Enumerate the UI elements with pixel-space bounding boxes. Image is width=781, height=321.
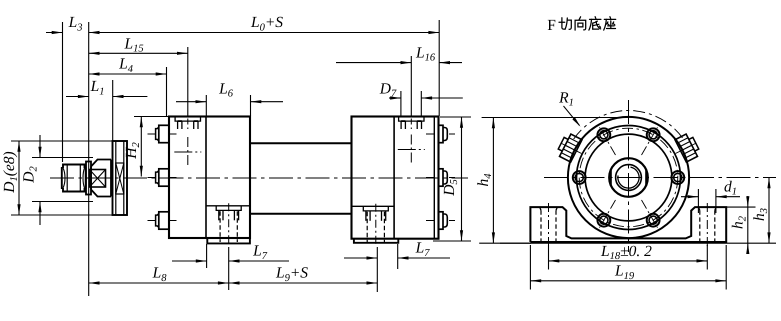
wire key radial line upper-left	[562, 144, 582, 154]
node thread box X1	[90, 170, 106, 188]
node base left foot hole	[540, 203, 558, 249]
wire extension line L6 left	[205, 95, 207, 116]
dimension D2	[21, 135, 94, 225]
node base right foot hole	[699, 203, 717, 249]
node boss wrench flat left	[609, 168, 612, 187]
node tie-rod nut front top	[148, 125, 177, 142]
wire extension line L7L left down	[206, 244, 208, 268]
dimension R1 leader	[558, 89, 580, 126]
dimension L19	[530, 263, 726, 283]
dimension L1	[66, 78, 147, 98]
node bolt pitch circle	[579, 128, 678, 227]
wire rear cover line	[433, 117, 435, 239]
node cylinder tube	[250, 143, 352, 214]
node flange outer circle	[568, 117, 689, 238]
wire horizontal centerline (end view)	[544, 177, 776, 179]
dimension D5	[433, 117, 471, 241]
node flange bolt upper-right	[642, 127, 660, 155]
node flange bolt lower-left	[597, 200, 615, 228]
dimension L4	[89, 56, 167, 76]
dimension L8	[89, 265, 229, 285]
wire extension L19 right	[725, 245, 727, 290]
dimension L7 rear	[344, 240, 450, 260]
node rear head bottom boss	[354, 239, 398, 243]
node spigot circle	[577, 126, 681, 230]
dimension L16	[336, 44, 462, 64]
node cushion screw rear middle	[426, 169, 455, 186]
node rear head port crosshair	[398, 135, 425, 165]
dimension L15	[89, 36, 188, 55]
wire extension line port2 CL down	[376, 247, 378, 292]
svg-text:L0+S: L0+S	[250, 14, 283, 33]
node flange bolt left	[573, 171, 586, 184]
wire front head inner line	[205, 117, 207, 239]
node flange bolt lower-right	[642, 200, 660, 228]
dimension L9+S	[229, 265, 378, 285]
node flange bolt right	[671, 171, 684, 184]
node front head bottom port	[206, 203, 250, 246]
node rear head block	[352, 117, 439, 239]
node tangential base outline	[530, 207, 726, 242]
node tapered collar	[91, 160, 111, 197]
wire rear head inner line	[393, 117, 395, 239]
wire extension line D7 right	[420, 91, 422, 116]
wire extension L18 right	[706, 245, 708, 270]
wire vertical centerline (end view)	[628, 100, 630, 252]
dimension L7 front	[172, 243, 289, 263]
svg-text:D1(e8): D1(e8)	[1, 151, 20, 193]
node piston rod circle	[618, 167, 639, 188]
wire extension line x166.5	[166, 67, 168, 116]
node rear head bottom port	[353, 204, 395, 247]
node thread box X2	[116, 163, 124, 194]
node gland flange plate	[113, 141, 128, 215]
node hex nut on piston rod	[62, 165, 86, 192]
dimension d1	[681, 178, 740, 213]
wire extension L18 left	[548, 245, 550, 270]
node key pitch arc (dash-dot)	[574, 111, 684, 140]
dimension h3	[751, 178, 771, 244]
wire H2 top extension line	[134, 116, 169, 118]
wire rod centerline (left view)	[50, 177, 468, 179]
wire extension line L6 right	[250, 95, 252, 116]
node front head top port	[175, 117, 200, 132]
node tie-rod nut rear bottom	[426, 212, 455, 229]
wire base bottom extension line	[500, 242, 776, 244]
node boss wrench flat right	[645, 168, 648, 187]
wire extension line D7 left	[400, 91, 402, 116]
wire extension line rod face x62.5	[62, 22, 64, 162]
wire extension line x112.7	[112, 80, 114, 158]
svg-text:F: F	[547, 17, 556, 34]
wire extension line L7R right down	[397, 244, 399, 269]
dimension L6	[176, 81, 283, 104]
dimension L0+S	[89, 14, 440, 34]
wire extension line port1 CL down	[228, 247, 230, 290]
wire extension line port1 CL up	[187, 47, 189, 116]
wire extension L19 left	[529, 245, 531, 290]
node tie-rod nut rear top	[426, 125, 455, 142]
node flange bolt upper-left	[597, 127, 615, 155]
svg-text:L18±0. 2: L18±0. 2	[600, 243, 652, 262]
node rod gland boss front middle	[148, 169, 177, 186]
dimension D7	[379, 81, 463, 100]
dimension L18±0.2	[549, 243, 708, 263]
node front head block	[169, 117, 250, 239]
node tangential key upper-right	[675, 132, 701, 162]
dimension H2	[123, 117, 143, 177]
node front head bottom boss	[207, 238, 250, 243]
node center boss circle	[609, 158, 648, 197]
node tangential key upper-left	[556, 132, 582, 162]
svg-text:L9+S: L9+S	[275, 265, 308, 284]
node gland circle	[616, 165, 642, 191]
node front head port crosshair	[174, 137, 201, 167]
wire key radial line upper-right	[676, 144, 696, 154]
dimension h2	[726, 196, 755, 254]
dimension D1(e8)	[1, 141, 115, 215]
node inner step circle	[585, 134, 672, 221]
wire extension line nut back x88.7	[88, 22, 90, 296]
node tie-rod nut front bottom	[148, 212, 177, 229]
wire extension line block right x439.2	[438, 20, 440, 116]
node rear head top port	[399, 117, 424, 132]
wire extension line port2 CL up	[410, 56, 412, 116]
dimension h4	[475, 118, 628, 244]
dimension L3	[46, 14, 82, 34]
node washer behind nut	[86, 162, 91, 195]
